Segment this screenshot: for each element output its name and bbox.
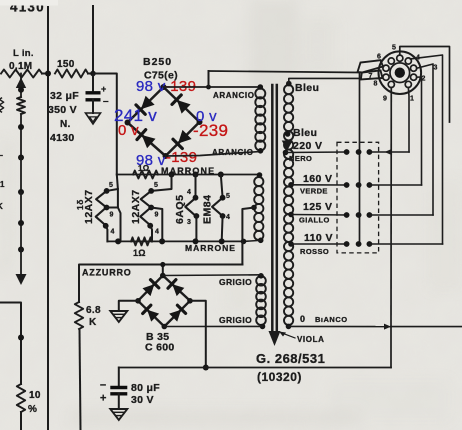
wire tap rosso [291, 243, 347, 245]
tube V4 pin5 dot [220, 195, 226, 201]
label pin4 V3 [187, 189, 191, 196]
tube V3 heater [185, 198, 196, 216]
label 6.8 [86, 305, 101, 316]
svg-text:NERO: NERO [289, 154, 312, 163]
socket pin holes [383, 55, 417, 87]
label pin9 [383, 96, 387, 103]
connector wedge pin6 [358, 60, 384, 72]
tube V1 pin9 dot [104, 205, 110, 211]
svg-text:98 v: 98 v [136, 78, 166, 95]
ground 80uF [110, 409, 127, 420]
wire 80uF stem [118, 368, 120, 388]
diode D6 top-right [168, 280, 184, 296]
wire left chain mid3 [20, 192, 22, 250]
winding primary [284, 85, 293, 325]
svg-text:12AX7: 12AX7 [83, 189, 95, 224]
label L in. [13, 48, 34, 59]
svg-text:8: 8 [374, 81, 378, 88]
wire grigio top [163, 274, 261, 277]
node heater tap [251, 205, 257, 211]
selector row 2 wire [369, 184, 421, 186]
label B35 [146, 331, 169, 343]
wire left chain r to b [20, 114, 22, 158]
node left chain C [18, 155, 24, 161]
node arancio top tap [206, 85, 211, 90]
node grigio top [258, 273, 264, 279]
wire 6.8K tail [80, 329, 81, 430]
node azzurro-b35 [160, 262, 165, 267]
label 30V [131, 394, 154, 406]
tube V2 pin9 dot [148, 205, 154, 211]
label Bleu top [295, 82, 319, 94]
diode D7 bottom-left [143, 305, 159, 321]
winding heater marrone [254, 177, 263, 240]
svg-text:80 μF: 80 μF [131, 382, 160, 394]
label 1d [75, 199, 85, 210]
node left chain D [18, 189, 24, 195]
label pin4 V2 [155, 229, 159, 236]
label pin1 sk [410, 96, 414, 103]
label pin5 V4 [226, 193, 230, 200]
node b35 left [135, 298, 141, 304]
wire b35 right down [190, 301, 206, 368]
label 125 V [303, 201, 332, 213]
annotation -139 bottom [166, 149, 197, 166]
label 110 V [304, 232, 333, 244]
tube V1 heater upper [96, 191, 107, 208]
wire cap stem [92, 74, 94, 92]
node left chain E [18, 220, 24, 226]
svg-text:0 v: 0 v [118, 122, 139, 139]
label GIALLO [299, 216, 330, 225]
svg-text:6.8: 6.8 [86, 305, 101, 316]
wire cap to gnd [92, 100, 94, 113]
diode D3 top-right [172, 95, 191, 114]
diode D8 bottom-right [169, 305, 185, 321]
annotation -139 top [165, 78, 196, 95]
winding HV secondary arancio [255, 89, 265, 151]
svg-text:5: 5 [154, 182, 158, 189]
ground 32uF [86, 113, 101, 124]
node tap giallo [288, 212, 294, 218]
node primary bottom [286, 324, 292, 330]
tube socket outline [379, 51, 422, 94]
node left chain A [18, 87, 24, 93]
label cut mark3 [0, 180, 5, 189]
bianco junction arrow [384, 324, 391, 330]
node left chain B [18, 124, 24, 130]
tube V3 6AQ5 label [174, 195, 186, 224]
svg-text:N.: N. [60, 119, 71, 130]
svg-text:BıANCO: BıANCO [315, 315, 348, 324]
annotation -239 [193, 121, 228, 140]
wire b35 top stub [162, 265, 164, 276]
svg-text:3: 3 [187, 219, 191, 226]
selector row 3 dots [344, 212, 373, 218]
label VERDE [300, 187, 328, 196]
node tap nero [283, 150, 289, 156]
arrow up on left chain [16, 78, 26, 89]
wire tap nero [286, 151, 347, 154]
resistor left chain [17, 97, 25, 114]
wire bianco riser down [390, 327, 392, 368]
svg-text:4130: 4130 [50, 132, 75, 144]
tube V1 pin5 dot [104, 188, 110, 194]
tube V2 pin9 stub [151, 208, 162, 242]
node bridge top [161, 84, 167, 90]
wire line B to socket [209, 71, 360, 73]
tube V1 riser2 [118, 189, 121, 241]
node b35 out [203, 365, 209, 371]
resistor 0,1M value [9, 61, 32, 72]
wire 80uF to gnd [118, 394, 120, 409]
annotation 98v bottom [136, 152, 166, 169]
svg-text:1Ω: 1Ω [133, 248, 146, 258]
annotation 0v left [118, 122, 139, 139]
svg-text:-239: -239 [193, 121, 228, 140]
node b35 top [160, 273, 166, 279]
tube V2 heater lower [140, 208, 151, 226]
resistor 6.8K [75, 302, 83, 329]
svg-text:Bleu: Bleu [293, 127, 317, 139]
svg-text:1: 1 [410, 96, 414, 103]
wire bianco [289, 325, 392, 327]
svg-text:–: – [103, 96, 109, 107]
svg-text:160 V: 160 V [303, 173, 332, 185]
wire bianco to edge [391, 326, 462, 328]
tube V3 riser bottom [195, 216, 197, 241]
viola pointer [279, 332, 295, 339]
svg-text:AZZURRO: AZZURRO [82, 268, 132, 278]
tube V2 riser top [151, 175, 171, 191]
tube V2 pin4 wire [150, 226, 152, 242]
wire heater rail top [117, 174, 260, 176]
wire heater tap jog [242, 208, 254, 265]
label 220 V [293, 140, 322, 152]
label NERO [289, 154, 312, 163]
tube V2 12AX7 label [130, 189, 142, 224]
svg-text:150: 150 [57, 59, 75, 70]
arrow 220V [282, 141, 293, 151]
label pin7 [369, 73, 373, 80]
svg-text:GRIGIO: GRIGIO [219, 277, 252, 287]
node rail2 c [193, 238, 199, 244]
label cut squiggle [0, 98, 4, 112]
svg-text:–: – [100, 379, 106, 391]
tube V2 pin4 dot [147, 223, 153, 229]
label cut mark4 [0, 202, 3, 211]
selector row1 arrow [385, 149, 392, 155]
tube V1 pin9 stub [107, 207, 118, 209]
tube V2 pin5 dot [148, 188, 154, 194]
wire pin4 out [410, 55, 442, 244]
wire b35 left to gnd [119, 301, 138, 311]
label cut mark2 [0, 154, 3, 163]
wire rail2 to coil bottom [244, 240, 260, 241]
annotation 241v [114, 106, 157, 125]
wire pin1 down [407, 87, 410, 152]
label minus 80uF [100, 379, 106, 391]
wire 150 to cap node [88, 73, 93, 75]
svg-text:4: 4 [155, 229, 159, 236]
node primary top [286, 81, 292, 87]
svg-text:9: 9 [110, 212, 114, 219]
svg-text:5: 5 [109, 182, 113, 189]
label pin8 [374, 81, 378, 88]
tube V1 riser [107, 175, 118, 191]
tube V1 pin4 dot [103, 223, 109, 229]
annotation 0v right [196, 108, 217, 125]
tube V3 riser top [195, 175, 197, 198]
svg-text:VIOLA: VIOLA [297, 335, 324, 344]
svg-text:4: 4 [226, 214, 230, 221]
label pin3 V3 [187, 219, 191, 226]
svg-text:Γ: Γ [0, 154, 3, 163]
label G.268/531 [256, 351, 325, 366]
wire lin to bus [42, 73, 48, 75]
tube V4 riser top [221, 175, 223, 198]
node tap rosso [288, 241, 294, 247]
wire pin9 down bianco [390, 87, 392, 326]
selector common riser [359, 73, 361, 245]
label VIOLA [297, 335, 324, 344]
node bridge right [197, 119, 203, 125]
node b35 bottom [162, 324, 168, 330]
wire vertical bus left [47, 7, 49, 430]
resistor heater 1ohm top [133, 171, 158, 179]
arrow down end of left chain [16, 274, 27, 285]
tube V4 heater [212, 198, 223, 216]
label MARRONE top [161, 166, 215, 176]
label 32 uF [50, 90, 79, 102]
label plus 80uF [100, 393, 107, 405]
core viola arrow [269, 331, 281, 346]
svg-text:(10320): (10320) [257, 370, 302, 384]
label plus cap [101, 84, 107, 94]
svg-text:L in.: L in. [13, 48, 34, 59]
node 10pct [18, 335, 24, 341]
label minus cap [103, 96, 109, 107]
node rail2 b [159, 238, 165, 244]
wire 10pct tail [20, 412, 22, 430]
svg-text:ARANCIO: ARANCIO [212, 148, 254, 157]
selector row 3 wire [369, 214, 433, 216]
tube V1 pin4 wire [106, 226, 108, 242]
node rail1 t4 [218, 172, 224, 178]
node tap bleu2 [285, 131, 291, 137]
label pin9 V1 [110, 212, 114, 219]
svg-text:32 μF: 32 μF [50, 90, 79, 102]
svg-text:K: K [0, 202, 3, 211]
wire tap verde [291, 184, 347, 186]
label pin4 sk [416, 55, 420, 62]
resistor 1ohm bottom [131, 237, 152, 245]
annotation 98v top [136, 78, 166, 95]
wire dc return [119, 367, 391, 369]
tube V4 riser bottom [221, 216, 224, 241]
bridge B250 outline [128, 87, 200, 156]
resistor 10% [17, 384, 25, 412]
label pin9 V2 [155, 212, 159, 219]
node rail2 tap [241, 239, 247, 245]
selector row 1 wire [369, 151, 409, 153]
connector wedge pin7 [361, 70, 383, 79]
label ARANCIO top [213, 91, 255, 100]
svg-text:9: 9 [155, 212, 159, 219]
svg-text:Bleu: Bleu [295, 82, 319, 94]
svg-text:5: 5 [392, 45, 396, 52]
svg-text:GIALLO: GIALLO [299, 216, 330, 225]
node coil hv top [258, 84, 264, 90]
wire tap giallo [291, 214, 347, 217]
label pin5 V2 [154, 182, 158, 189]
svg-text:VERDE: VERDE [300, 187, 328, 196]
svg-text:4: 4 [111, 229, 115, 236]
wire pin2 out [417, 77, 422, 185]
label 80uF [131, 382, 160, 394]
node left chain F [18, 247, 24, 253]
capacitor 80uF [110, 388, 127, 394]
node cap junction [90, 71, 96, 77]
node lin junction [45, 71, 51, 77]
node coil hv bottom [258, 148, 264, 154]
diode D5 top-left [143, 280, 159, 296]
selector row 4 wire [369, 243, 442, 245]
svg-text:9: 9 [383, 96, 387, 103]
tube V3 pin4 dot [193, 195, 199, 201]
svg-text:K: K [89, 317, 97, 328]
svg-text:%: % [28, 404, 37, 415]
wire arancio bottom [166, 152, 261, 157]
selector row 1 dots [344, 149, 373, 155]
label AZZURRO [82, 268, 132, 278]
label 1ohm heater [138, 164, 150, 173]
label percent [28, 404, 37, 415]
label 4130 [50, 132, 75, 144]
bridge B35 outline [138, 276, 190, 327]
wire pin3 out [417, 64, 433, 215]
svg-text:ROSSO: ROSSO [300, 247, 329, 256]
svg-text:350 V: 350 V [48, 104, 77, 116]
label MARRONE bottom [185, 243, 236, 253]
svg-text:125 V: 125 V [303, 201, 332, 213]
label pin5 V1 [109, 182, 113, 189]
label +130 net [0, 0, 58, 15]
diode D2 bottom-left [137, 130, 156, 149]
node heater bottom [258, 238, 264, 244]
svg-text:12AX7: 12AX7 [130, 189, 142, 224]
svg-text:1: 1 [0, 180, 5, 189]
label B250 [143, 56, 172, 68]
selector row 2 dots [344, 182, 373, 188]
core laminations [272, 85, 277, 331]
wire left chain tail [20, 250, 22, 275]
svg-text:4: 4 [187, 189, 191, 196]
label GRIGIO top [219, 277, 252, 287]
label pin6 [377, 54, 381, 61]
node rail1 t2 [169, 172, 175, 178]
node b35 right [187, 298, 193, 304]
node rail1 t3 [193, 172, 199, 178]
label pin4 V1 [111, 229, 115, 236]
tube V4 EM84 label [202, 195, 214, 224]
tube V3 pin3 dot [194, 213, 200, 219]
svg-text:10: 10 [29, 390, 41, 401]
label Bleu mid [293, 127, 317, 139]
diode D4 bottom-right [173, 130, 192, 149]
svg-text:+: + [100, 393, 107, 405]
label GRIGIO bottom [219, 315, 252, 325]
label pin2 sk [422, 76, 426, 83]
wire arancio top [164, 86, 261, 88]
capacitor C 32uF [86, 93, 101, 100]
wire left chain upper [20, 74, 22, 98]
label C75(e) [144, 70, 178, 82]
svg-text:6AQ5: 6AQ5 [174, 195, 186, 224]
socket center spigot [390, 63, 410, 83]
label pin4 V4 [226, 214, 230, 221]
wire pin5 out [400, 47, 450, 123]
wire vertical from top to 150-junction [92, 6, 94, 73]
selector dashed box [337, 142, 379, 253]
svg-text:0: 0 [300, 314, 305, 324]
svg-text:5: 5 [226, 193, 230, 200]
svg-text:-139: -139 [166, 149, 197, 166]
tube V2 heater upper [141, 191, 152, 208]
label ARANCIO bottom [212, 148, 254, 157]
svg-text:220 V: 220 V [293, 140, 322, 152]
label pin5 [392, 45, 396, 52]
winding grigio secondary [256, 276, 266, 325]
svg-text:ARANCIO: ARANCIO [213, 91, 255, 100]
wire primary top to pin7 line [289, 78, 361, 83]
resistor 0,1M [1, 70, 42, 78]
svg-text:3: 3 [434, 65, 438, 72]
tube V4 pin4 dot [220, 213, 226, 219]
node tap verde [288, 182, 294, 188]
label 160 V [303, 173, 332, 185]
node bridge bottom [163, 153, 169, 159]
tube V1 12AX7 label [83, 189, 95, 224]
wire riser to socket line [208, 71, 210, 87]
node bridge left [125, 120, 131, 126]
svg-text:G. 268/531: G. 268/531 [256, 351, 325, 366]
label K [89, 317, 97, 328]
label C600 [145, 342, 175, 354]
wire left chain mid2 [20, 158, 22, 193]
wire corner from left edge [0, 303, 21, 385]
node rail2 d [219, 238, 225, 244]
svg-text:B250: B250 [143, 56, 172, 68]
diode D1 top-left [136, 96, 155, 115]
svg-text:MARRONE: MARRONE [185, 243, 236, 253]
label (10320) [257, 370, 302, 384]
label 150 [57, 59, 75, 70]
label 350 V [48, 104, 77, 116]
wire azzurro [79, 265, 242, 303]
node rail1 coil [257, 172, 263, 178]
svg-text:C 600: C 600 [145, 342, 175, 354]
svg-text:EM84: EM84 [202, 195, 214, 224]
svg-text:GRIGIO: GRIGIO [219, 315, 252, 325]
wire heater rail bottom [107, 240, 244, 242]
label N. [60, 119, 71, 130]
label 0 BIANCO [300, 314, 348, 324]
svg-text:30 V: 30 V [131, 394, 154, 406]
tube V1 heater lower [96, 208, 107, 226]
svg-text:+: + [101, 84, 107, 94]
ground b35 [110, 311, 127, 322]
